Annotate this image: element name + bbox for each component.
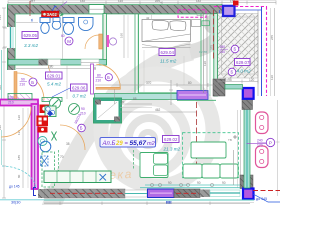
entry circle B	[29, 78, 37, 86]
toilet2 bowl	[64, 23, 74, 35]
svg-text:до 145: до 145	[9, 185, 20, 189]
left dim text	[0, 15, 2, 130]
red dashed centerline bottom left	[50, 192, 124, 194]
terrace magenta dashed rail	[266, 7, 268, 97]
svg-text:29: 29	[115, 141, 123, 147]
magenta wall inner bright line	[34, 106, 36, 187]
terrace left green line	[217, 14, 219, 79]
magenta radiator pill 1	[256, 112, 269, 134]
left dim line	[2, 8, 6, 198]
bath2 door arc	[85, 35, 99, 49]
top dim line	[8, 1, 276, 5]
top dim line 2	[8, 0, 276, 2]
svg-text:М: М	[67, 39, 71, 44]
bedroom right wall green line	[209, 14, 211, 97]
bathroom band hatch pier	[39, 59, 48, 66]
svg-text:160: 160	[120, 33, 124, 38]
terrace room label 629.07	[235, 59, 251, 66]
bathroom2 door gap	[81, 59, 99, 65]
watermark core	[141, 132, 155, 146]
left window sill	[3, 27, 7, 29]
svg-text:120: 120	[118, 0, 123, 3]
plus marker	[233, 135, 237, 139]
blue diamond	[47, 111, 53, 117]
entry dim 100/210 purple	[8, 96, 14, 105]
top red square	[233, 1, 239, 6]
bottom hatch left stub	[38, 189, 44, 198]
hall right dim vline	[66, 65, 68, 99]
kitchen counter	[44, 171, 111, 183]
left wall window gap	[7, 27, 16, 48]
svg-text:90: 90	[197, 181, 201, 185]
terrace hatch area	[218, 14, 259, 79]
svg-text:30|30: 30|30	[11, 201, 20, 205]
magenta wall horizontal	[0, 100, 38, 106]
entry dim 90/210	[20, 78, 26, 87]
svg-text:629.02: 629.02	[164, 137, 178, 142]
svg-text:210: 210	[80, 112, 86, 116]
svg-text:0.7 m2: 0.7 m2	[73, 94, 87, 99]
red-brown dashed vline living	[196, 102, 198, 178]
svg-text:Ап.Б: Ап.Б	[102, 141, 116, 147]
sofa bottom seat 3	[220, 164, 238, 178]
bedroom-terrace wall band	[214, 14, 218, 97]
right edge gray line	[270, 8, 272, 96]
terrace-bottom blue square	[243, 88, 254, 99]
svg-text:до 345: до 345	[256, 197, 267, 201]
leader line 629.06	[52, 88, 70, 97]
sofa vertical back	[140, 153, 168, 178]
svg-text:185: 185	[17, 155, 21, 160]
svg-text:P: P	[269, 140, 272, 145]
svg-text:80: 80	[97, 74, 101, 78]
living right teal band	[244, 109, 250, 188]
bathroom1 door gap	[48, 59, 61, 65]
outside door arc big orange	[1, 107, 31, 137]
watermark inner ring	[129, 118, 169, 158]
shaft green outline	[93, 98, 121, 123]
svg-text:Б: Б	[234, 47, 237, 52]
svg-text:120: 120	[249, 78, 255, 82]
watermark tail to top-right	[190, 20, 223, 52]
terrace blue railing	[261, 7, 263, 97]
top dim text	[30, 0, 235, 3]
svg-text:ТВ: ТВ	[228, 138, 232, 142]
svg-text:90: 90	[93, 66, 97, 70]
magenta dashed AC box on wall	[178, 10, 206, 17]
svg-text:R=95: R=95	[224, 78, 232, 82]
toilet2 cistern	[63, 18, 74, 23]
gray vline living right	[233, 150, 235, 185]
right dim column	[274, 8, 276, 96]
living bottom dim row	[145, 184, 240, 186]
left wall hatch	[8, 5, 16, 100]
blue drop line from terrace square	[229, 16, 231, 49]
svg-text:120: 120	[203, 61, 207, 66]
living top dim line	[120, 111, 196, 113]
purple leader line to P	[247, 143, 267, 145]
svg-text:85: 85	[133, 97, 137, 101]
terrace blue top line	[225, 9, 262, 11]
blue dim marks bathroom1	[30, 18, 34, 22]
bed foot line	[142, 47, 191, 49]
circle M door mark	[65, 37, 73, 45]
washer teal circle	[38, 137, 47, 146]
svg-text:Б: Б	[231, 70, 234, 75]
purple circle P	[266, 138, 274, 146]
sofa bottom seat 2	[202, 164, 220, 178]
room label 629.05	[22, 32, 38, 39]
terrace top blue square	[223, 6, 235, 16]
label 629.06	[71, 84, 88, 91]
closet small circle	[109, 38, 116, 45]
bathroom divider wall x103	[103, 14, 107, 65]
svg-text:3A02: 3A02	[47, 12, 58, 17]
pillow 1	[152, 20, 168, 30]
bottom wall dark block	[174, 189, 200, 198]
svg-text:280: 280	[48, 65, 54, 69]
svg-text:3.3 m2: 3.3 m2	[24, 43, 38, 48]
svg-text:120: 120	[0, 125, 2, 130]
tv table green rect	[191, 142, 226, 158]
svg-text:375: 375	[210, 45, 214, 50]
green plant mark right of stamp	[60, 13, 64, 17]
svg-text:629.06: 629.06	[72, 85, 86, 90]
bathroom dim line h	[16, 22, 38, 24]
corridor bottom thin lines	[120, 103, 152, 105]
shaft corner hatches	[95, 100, 101, 105]
green dashed vline	[58, 150, 60, 171]
bottom left teal line	[0, 199, 44, 201]
terrace bottom dim line	[218, 81, 258, 83]
svg-text:90: 90	[81, 107, 85, 111]
svg-text:462: 462	[155, 108, 161, 112]
stamp blue mark	[52, 6, 57, 11]
bathroom dim line v	[62, 14, 64, 59]
bottom wall hatch left	[44, 189, 125, 198]
terrace right gray line	[257, 10, 259, 96]
magenta wall vertical	[32, 104, 39, 189]
svg-text:80: 80	[188, 81, 192, 85]
window green rect on right wall	[202, 21, 209, 26]
corridor circle B	[105, 74, 112, 81]
kitchen door arc	[60, 125, 85, 150]
red box C	[38, 127, 48, 133]
carpet dashed green	[183, 133, 239, 178]
svg-text:629.07: 629.07	[236, 60, 250, 65]
svg-text:21.3 m2: 21.3 m2	[163, 147, 181, 152]
entry door opening	[7, 70, 16, 100]
purple dim 90 kitchen	[80, 107, 86, 116]
blue X appliance	[41, 156, 49, 166]
top wall green outline	[8, 4, 223, 14]
vertical dim mid corridor	[113, 88, 115, 104]
svg-text:120: 120	[270, 75, 274, 80]
corridor door arc	[96, 64, 120, 88]
green fixture box	[45, 106, 56, 117]
terrace left blue line	[219, 10, 221, 78]
svg-text:11.5 m2: 11.5 m2	[160, 59, 177, 64]
purple dim text 240/170	[257, 139, 263, 148]
kitchen green bar	[42, 98, 62, 102]
kitchen door circle B	[78, 124, 86, 132]
svg-text:5.4 m2: 5.4 m2	[47, 82, 61, 87]
bottom dim line	[44, 203, 250, 205]
red dashed centerline bottom mid	[176, 192, 199, 194]
blanket fold lines	[142, 34, 191, 42]
svg-text:120: 120	[17, 115, 21, 120]
svg-text:40: 40	[160, 1, 164, 5]
left window glazing	[10, 27, 12, 48]
red stamp box top-left	[42, 11, 60, 18]
svg-text:170: 170	[257, 144, 263, 148]
svg-text:55,67: 55,67	[130, 140, 147, 147]
banner Ap.B label	[100, 138, 156, 148]
red-brown dashed vline bedroom right	[213, 10, 215, 60]
bidet	[52, 21, 61, 30]
blue chevron marks	[223, 29, 226, 33]
toilet1 bowl	[41, 23, 49, 34]
gray line below	[44, 202, 254, 204]
bedroom right wall lines	[204, 14, 217, 97]
bottom wall teal window right	[210, 190, 240, 197]
svg-text:Б: Б	[107, 75, 110, 80]
green line under door	[177, 99, 216, 101]
bottom wall gray right	[200, 190, 210, 198]
living room sliding door purple	[177, 91, 208, 100]
svg-text:80: 80	[17, 174, 21, 178]
watermark middle ring	[114, 101, 186, 173]
kitchen tall unit dashed	[42, 152, 55, 187]
corridor door leaf orange	[96, 87, 120, 89]
outside dim col 1	[22, 108, 24, 188]
small marks in AC box	[197, 12, 203, 16]
svg-text:357: 357	[30, 0, 35, 3]
outside cyan arc	[2, 166, 36, 188]
bathrooms bottom wall band	[8, 60, 107, 66]
bath2 door leaf orange	[99, 34, 103, 49]
terrace magenta dashed top	[214, 6, 267, 8]
nightstand right of bed	[192, 20, 201, 27]
sink2	[79, 18, 94, 31]
terrace circle B1	[231, 45, 239, 53]
svg-text:90: 90	[168, 181, 172, 185]
bottom wall purple door	[148, 189, 175, 198]
sofa cushion 2	[154, 165, 168, 176]
svg-text:180: 180	[220, 45, 226, 49]
svg-text:60: 60	[61, 34, 65, 38]
terrace inner gray rect	[222, 17, 255, 74]
terrace bottom column	[213, 79, 225, 96]
svg-text:629.01: 629.01	[47, 73, 61, 78]
hall cabinet hatched	[8, 94, 32, 100]
terrace circle B2	[228, 68, 236, 76]
vertical dim at x171	[170, 80, 172, 105]
svg-text:Р2 В5: Р2 В5	[199, 50, 208, 54]
svg-text:210: 210	[20, 83, 26, 87]
left wall green edges	[7, 5, 9, 100]
bedroom inner dim line	[95, 84, 215, 86]
purple dim 60/201	[61, 34, 65, 38]
svg-text:ВЕ: ВЕ	[166, 200, 172, 205]
bathroom1 green inner outline	[16, 14, 103, 59]
red dashed line bottom right	[253, 190, 280, 192]
green dashed vline 2	[133, 150, 135, 170]
svg-text:=: =	[125, 141, 129, 147]
stamp content	[43, 13, 46, 16]
svg-text:100: 100	[8, 96, 14, 100]
svg-text:135: 135	[0, 15, 2, 20]
shaft square	[95, 100, 120, 122]
top wall hatch	[8, 5, 222, 14]
corner blue square	[243, 189, 254, 200]
hall right wall	[91, 64, 94, 94]
teal line below bottom wall	[44, 199, 254, 201]
svg-text:Б: Б	[80, 126, 83, 131]
svg-text:240: 240	[220, 50, 226, 54]
room label 629.02	[163, 136, 180, 143]
lamp circle 1	[50, 98, 61, 109]
svg-text:90: 90	[222, 181, 226, 185]
magenta radiator pill 2	[256, 146, 269, 168]
svg-text:42: 42	[146, 16, 150, 20]
svg-text:160: 160	[80, 0, 85, 3]
left edge teal marks	[1, 50, 3, 100]
purple leader from stamp	[56, 2, 67, 12]
watermark big ring	[101, 74, 213, 186]
svg-text:210: 210	[8, 101, 14, 105]
kitchen sink circle blue	[40, 141, 51, 152]
hall room label 629.01	[46, 72, 63, 79]
sofa cushion 1	[154, 154, 168, 165]
closet-bedroom wall green lines	[134, 14, 136, 94]
corridor dim 80/210	[96, 74, 102, 83]
blue bracket at wall foot	[34, 188, 37, 196]
hob blue X	[100, 174, 107, 181]
sofa bottom seat 1	[183, 164, 202, 178]
entry door leaf	[14, 72, 17, 101]
red socket box A	[40, 105, 50, 114]
svg-text:210: 210	[96, 79, 102, 83]
top wall window gap	[89, 5, 104, 14]
closet magenta bar	[107, 35, 110, 47]
svg-text:265: 265	[270, 35, 274, 40]
bedroom bottom wall teal band	[95, 94, 178, 100]
living right dim lines	[237, 110, 239, 188]
bedroom hairline dims	[151, 14, 153, 20]
svg-text:162: 162	[196, 0, 201, 3]
svg-text:70: 70	[60, 155, 64, 159]
blue leader bottom right	[253, 194, 280, 202]
bed outline	[142, 20, 191, 42]
watermark top-right blob	[204, 14, 224, 34]
corner column	[240, 175, 253, 189]
svg-text:4.0 m2: 4.0 m2	[237, 69, 251, 74]
shaft inner diagonals	[98, 102, 117, 118]
svg-text:629.04: 629.04	[161, 50, 175, 55]
terrace purple dim 180/240	[220, 45, 226, 54]
small red tick terrace	[229, 20, 232, 23]
watermark outer sweep	[50, 51, 192, 210]
teal line above bottom wall	[140, 187, 240, 189]
red-brown vline at x30 crossing top wall	[29, 1, 31, 16]
toilet1 cistern	[40, 18, 50, 23]
bathroom1 door arc	[49, 66, 60, 77]
room label 629.04	[159, 49, 175, 56]
green X mark	[52, 132, 57, 141]
pillow 2	[170, 21, 186, 31]
lamp circle 2	[69, 104, 80, 115]
svg-text:370: 370	[146, 81, 152, 85]
right dim line lower	[277, 100, 279, 196]
svg-text:m2: m2	[147, 141, 156, 147]
closet vertical dim line	[123, 15, 125, 58]
terrace inner dim lines	[225, 16, 227, 79]
svg-text:90: 90	[21, 78, 25, 82]
entry door arc	[17, 73, 44, 100]
svg-text:45: 45	[30, 18, 34, 22]
svg-text:Б: Б	[31, 80, 34, 85]
hall dim line top	[16, 68, 90, 70]
svg-text:240: 240	[257, 139, 263, 143]
svg-text:629.05: 629.05	[24, 33, 38, 38]
svg-text:20: 20	[121, 100, 125, 104]
bottom wall window mid	[125, 190, 147, 197]
red panel box B	[37, 116, 49, 127]
svg-text:38: 38	[66, 142, 70, 146]
bedroom interior green outline	[139, 14, 202, 93]
terrace bottom teal band	[225, 85, 243, 90]
dark block under terrace	[242, 99, 253, 110]
